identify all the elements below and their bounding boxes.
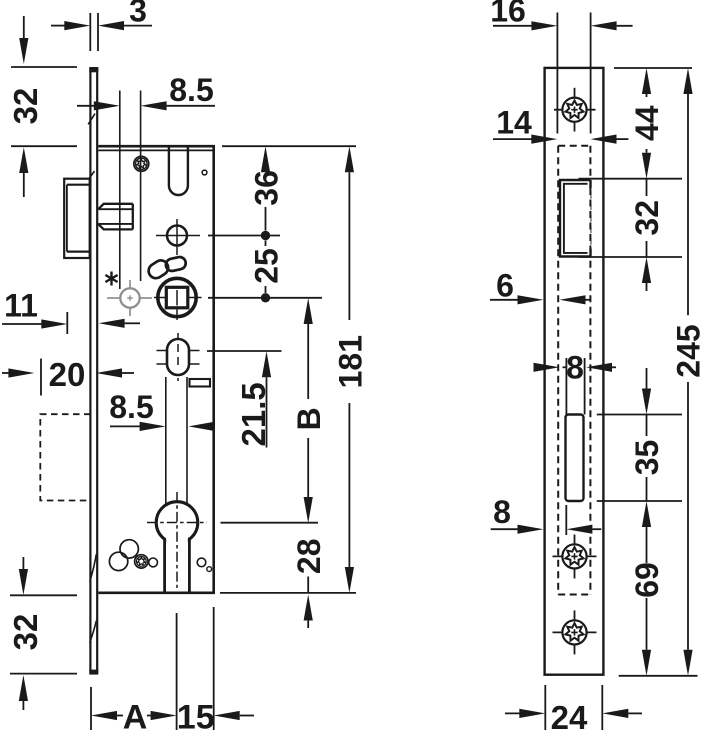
svg-text:21.5: 21.5 [235, 382, 272, 446]
internal circle B [109, 552, 127, 570]
oval hole with ticks [157, 333, 200, 381]
follower centerline vertical [176, 278, 178, 287]
svg-text:6: 6 [496, 268, 514, 304]
dim 181 line+arrows [345, 146, 354, 172]
svg-text:245: 245 [671, 324, 701, 377]
svg-text:181: 181 [332, 335, 368, 388]
svg-text:11: 11 [4, 288, 38, 324]
svg-text:8: 8 [493, 494, 511, 530]
internal circle E [207, 567, 212, 572]
ext lines 16/14 [556, 13, 558, 134]
svg-text:B: B [291, 407, 327, 430]
dim 3: line+arrows [51, 25, 66, 27]
svg-text:32: 32 [7, 614, 44, 651]
small rectangle stop [190, 379, 211, 387]
dim 15 right arrow [214, 711, 240, 720]
screw T1 [562, 98, 586, 122]
screw T3 crosshair [574, 610, 576, 654]
dim 8 left: ext [565, 505, 567, 535]
svg-text:36: 36 [249, 170, 285, 206]
dim 32-bottom arrows [22, 557, 24, 570]
ext cylinder right [221, 522, 319, 524]
ext slot bottom [597, 500, 682, 502]
latch tail slot (U-shape) [169, 147, 188, 195]
cylinder slot [566, 415, 584, 502]
svg-text:32: 32 [629, 200, 665, 236]
dim 8.5-top line+arrows [77, 105, 96, 107]
ext plate top right [614, 67, 692, 69]
extension line 8.5-left (x=119.8) [119, 91, 121, 290]
latchbolt body inside case [98, 204, 133, 230]
svg-text:3: 3 [129, 0, 147, 29]
lock case top inner line [98, 149, 213, 151]
svg-text:35: 35 [629, 440, 665, 476]
dim 20 line+arrows [2, 372, 10, 374]
dim 32 line+arrows [646, 179, 648, 196]
ext hole right [208, 235, 280, 237]
screw T2 crosshair [574, 535, 576, 579]
svg-text:14: 14 [496, 105, 532, 141]
svg-text:32: 32 [7, 88, 44, 125]
follower (square spindle hub) [154, 278, 202, 320]
svg-text:15: 15 [177, 699, 215, 730]
dim 14 [493, 138, 533, 140]
dim 32-top arrows [23, 16, 25, 40]
svg-text:44: 44 [629, 105, 665, 141]
ext case bottom left [10, 594, 77, 596]
ext case top right [222, 145, 356, 147]
dashed forend outline [40, 414, 90, 500]
dashed DIN cutout [558, 146, 590, 595]
dim 28 segments+arrow [307, 577, 309, 593]
ext top faceplate left [11, 66, 77, 68]
ext case top left [11, 145, 77, 147]
faceplate break tick 1 [88, 114, 95, 125]
faceplate break tick 3 [90, 554, 97, 581]
dim 6 [490, 299, 520, 301]
dim 8 middle: arrows [534, 363, 560, 372]
upper hole with crosshair [156, 219, 200, 255]
dim 24 line+arrows [505, 712, 521, 714]
internal circle C [149, 558, 158, 567]
svg-text:8.5: 8.5 [109, 389, 153, 425]
dim 44 line+arrows [642, 68, 651, 94]
svg-text:A: A [123, 699, 148, 730]
svg-text:20: 20 [49, 356, 86, 393]
ext plate bottom right [619, 675, 698, 677]
dim 8 left: arrows [491, 528, 520, 530]
stop lever (kidney shapes) [146, 256, 187, 281]
screw T3 [562, 620, 586, 644]
dim B line+arrows [304, 298, 313, 324]
ext case bottom right [220, 592, 356, 594]
dim 8 middle: ext lines [565, 358, 567, 415]
internal circle D [197, 558, 206, 567]
RIGHT-DRAWING [545, 13, 604, 675]
gray auxiliary hole [107, 280, 152, 316]
faceplate [89, 67, 98, 675]
ext follower right [208, 297, 322, 299]
faceplate break tick 4 [90, 621, 97, 643]
euro profile cylinder hole [147, 492, 207, 593]
lock case outline [98, 146, 213, 593]
dim 36/25 line with dots [265, 168, 267, 293]
ext faceplate bottom left [10, 673, 77, 675]
svg-text:16: 16 [490, 0, 526, 29]
ext slot top [597, 414, 682, 416]
svg-text:8: 8 [566, 349, 584, 385]
dim 16 [493, 25, 533, 27]
ext latch box bottom [579, 256, 683, 258]
dim A arrows [91, 711, 117, 720]
svg-text:8.5: 8.5 [169, 72, 213, 108]
ext oval right [207, 350, 282, 352]
latchbolt head (protruding) [64, 179, 90, 258]
latch opening box [560, 180, 591, 257]
internal circle A [120, 540, 138, 558]
dim 35 line+arrows [646, 368, 648, 389]
svg-text:28: 28 [291, 539, 327, 575]
bottom ext lines [90, 687, 92, 730]
svg-text:69: 69 [629, 562, 665, 598]
screw T2 [562, 544, 586, 568]
dim 24 ext lines [544, 685, 546, 730]
small hole top-right of case [202, 170, 207, 175]
dim 11 line+arrow [2, 323, 43, 325]
screw S1 on case [134, 156, 149, 171]
dim 69 line+arrows [642, 501, 651, 527]
internal screw S2 [135, 555, 148, 568]
svg-text:24: 24 [551, 699, 588, 730]
screw T1 crosshair [574, 88, 576, 132]
dim 245 line+arrows [683, 68, 692, 94]
dim 3: extension lines [89, 13, 91, 51]
dim 8.5-bottom line+arrows [110, 425, 142, 427]
ext latch box top [579, 178, 683, 180]
dim 21.5 arrow+line [262, 351, 271, 377]
faceplate break tick 2 [89, 171, 95, 179]
strike plate outline [545, 68, 604, 675]
asterisk mark [105, 272, 117, 286]
extension lines 8.5-bottom [165, 377, 167, 504]
svg-text:25: 25 [249, 248, 285, 284]
extension line 8.5-right (x=140.6) [140, 91, 142, 282]
